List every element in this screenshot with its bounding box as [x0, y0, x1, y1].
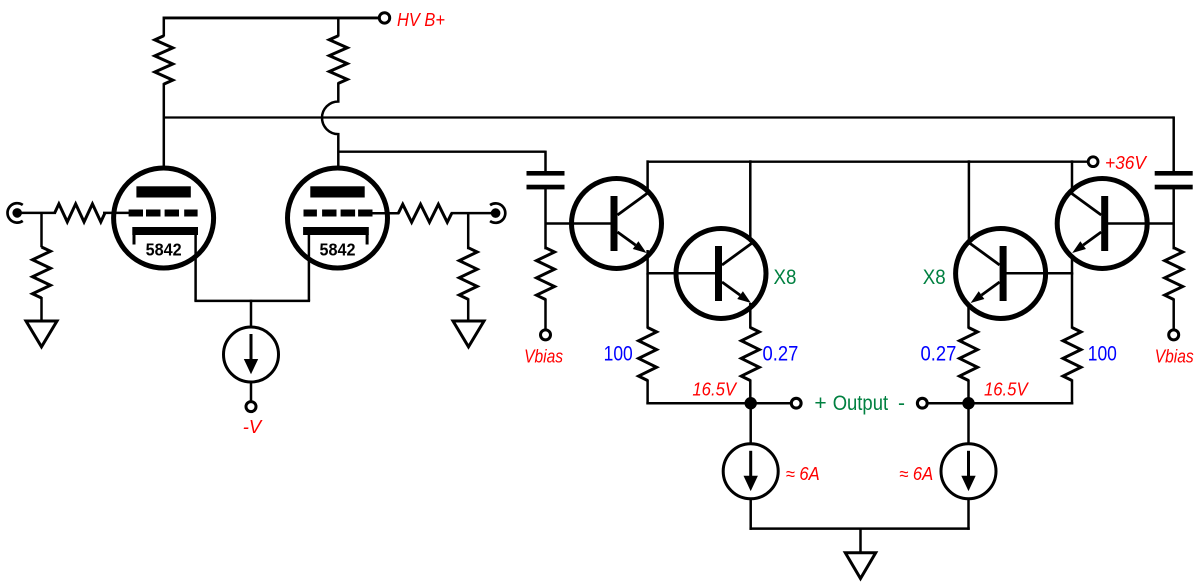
svg-text:HV B+: HV B+ [397, 10, 445, 30]
wire cathode bus to tail current source [250, 300, 253, 328]
wire Q1 collector to rail [646, 160, 649, 194]
svg-text:0.27: 0.27 [763, 343, 799, 366]
ground left input [26, 321, 57, 347]
wire capacitor right to Q4 base node [1172, 189, 1175, 250]
wire output node right [967, 402, 1073, 405]
wire to ground left [40, 297, 43, 322]
ground right input [453, 321, 484, 347]
svg-text:+36V: +36V [1105, 153, 1148, 173]
wire Q2 base [648, 272, 716, 275]
wire to Vbias terminal left [544, 299, 547, 331]
input jack right [491, 208, 501, 218]
wire Q4 collector to rail [1071, 160, 1074, 194]
svg-text:≈ 6A: ≈ 6A [786, 464, 820, 484]
resistor plate load left [155, 36, 173, 84]
wire current source right to bottom bus [967, 498, 970, 530]
svg-text:-V: -V [243, 417, 263, 437]
wire Q2 collector to rail [749, 160, 752, 242]
wire 0.27 left to output node [749, 380, 752, 404]
wire output - terminal to node [927, 402, 969, 405]
wire V2 grid to grid resistor right [370, 212, 399, 215]
svg-text:100: 100 [604, 343, 633, 366]
terminal +36V [1088, 157, 1098, 167]
triode V2 5842 [288, 168, 388, 268]
terminal Vbias right [1169, 330, 1179, 340]
resistor 0.27 right [960, 328, 978, 381]
transistor Q4 driver right [1057, 179, 1147, 269]
wire Q1 emitter node down to 100 ohm resistor [646, 273, 649, 328]
svg-text:Output: Output [833, 392, 889, 415]
terminal output + [791, 398, 801, 408]
triode V1 5842 [114, 168, 214, 268]
wire current source to -V terminal [250, 381, 253, 402]
wire cross-coupling line from V1 plate to right capacitor [164, 116, 1174, 118]
wire current source left to bottom bus [749, 498, 752, 530]
svg-text:Vbias: Vbias [1155, 347, 1194, 367]
ground output stage [845, 553, 875, 579]
wire Q3 base [1005, 272, 1073, 275]
svg-text:100: 100 [1088, 343, 1117, 366]
wire V2 plate line to left capacitor [338, 151, 545, 153]
current source left approx 6A [723, 444, 778, 499]
wire grid resistor to V1 grid [103, 212, 130, 215]
wire cathode bus [194, 300, 310, 303]
wire Q3 collector to rail [968, 160, 971, 242]
svg-text:≈ 6A: ≈ 6A [899, 464, 933, 484]
svg-text:X8: X8 [923, 266, 946, 289]
wire top B+ rail [164, 16, 380, 19]
transistor Q3 output right [956, 229, 1046, 319]
resistor grid stopper right [398, 204, 451, 222]
wire Q4 emitter to base node of Q3 [1071, 250, 1074, 275]
capacitor coupling right [1155, 171, 1193, 176]
wire jack to grid resistor left [21, 212, 56, 215]
svg-text:5842: 5842 [146, 240, 182, 260]
transistor Q2 output left [676, 229, 766, 319]
wire plate left to tube V1 [163, 83, 166, 188]
capacitor coupling left [527, 171, 565, 176]
current source right approx 6A [941, 444, 996, 499]
resistor plate load right [329, 36, 347, 84]
wire to Vbias terminal right [1172, 299, 1175, 331]
wire output node to current source left [749, 403, 752, 444]
wire bottom bus [749, 527, 969, 530]
svg-text:Vbias: Vbias [524, 347, 563, 367]
wire grid resistor right to jack [451, 212, 491, 215]
wire 100 left to output node [646, 380, 649, 405]
terminal output - [917, 398, 927, 408]
svg-text:X8: X8 [774, 266, 797, 289]
wire plate resistor right top [337, 17, 340, 37]
wire output node left [646, 402, 750, 405]
resistor Vbias right [1165, 248, 1183, 300]
junction output left [745, 397, 757, 409]
resistor 100 left [639, 328, 657, 381]
svg-text:16.5V: 16.5V [692, 380, 738, 400]
resistor grid stopper left [55, 204, 105, 222]
terminal -V [246, 402, 256, 412]
svg-text:+: + [814, 392, 826, 415]
wire V2 cathode down [308, 234, 311, 301]
resistor 0.27 left [741, 328, 759, 381]
wire +36V rail [648, 160, 1089, 162]
wire Q3 base node down to 100 ohm resistor [1071, 273, 1074, 328]
wire down to input shunt resistor right [467, 213, 470, 249]
wire to output + terminal [751, 402, 792, 405]
resistor Vbias left [537, 248, 555, 300]
wire output node to current source right [967, 403, 970, 444]
resistor 100 right [1063, 328, 1081, 381]
resistor input shunt left [33, 247, 51, 298]
wire 0.27 right to output node [967, 380, 970, 404]
transistor Q1 driver left [572, 179, 662, 269]
svg-text:16.5V: 16.5V [984, 380, 1030, 400]
svg-text:5842: 5842 [320, 240, 356, 260]
input jack left [12, 208, 22, 218]
wire Q1 emitter to base node of Q2 [646, 250, 649, 275]
wire Q2 emitter to 0.27 resistor [749, 303, 752, 329]
svg-text:0.27: 0.27 [921, 343, 957, 366]
wire bottom bus to ground [859, 529, 862, 554]
wire capacitor to Q1 base node [544, 189, 547, 250]
junction output right [962, 397, 974, 409]
terminal HV B+ [379, 13, 389, 23]
wire plate resistor left top [163, 17, 166, 37]
wire to ground right input [467, 298, 470, 322]
current source tail [224, 327, 279, 382]
wire down to input shunt resistor left [40, 213, 43, 247]
wire Q1 base [546, 222, 613, 225]
wire 100 right to output node [1071, 380, 1074, 405]
svg-text:-: - [898, 392, 905, 415]
wire hop of V2 plate wire over cross-coupling line [322, 82, 338, 188]
resistor input shunt right [459, 248, 477, 300]
terminal Vbias left [541, 330, 551, 340]
wire Q3 emitter to 0.27 resistor [967, 303, 970, 329]
wire V1 cathode down [194, 234, 197, 301]
wire Q4 base [1107, 222, 1174, 225]
